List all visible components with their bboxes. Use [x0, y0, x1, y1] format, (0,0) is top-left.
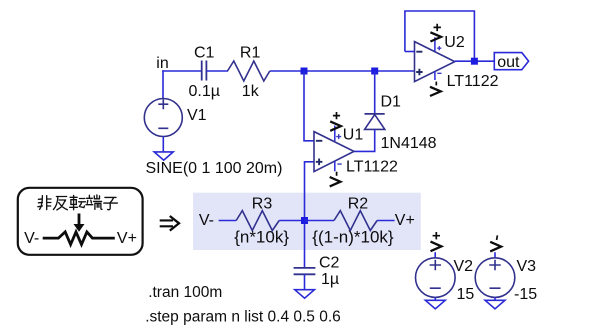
value (1-n)*10k — [312, 227, 394, 246]
svg-text:R2: R2 — [348, 196, 369, 213]
label V1 — [187, 107, 207, 124]
annotation potentiometer — [43, 232, 115, 245]
wire node A down to U1 inverting input — [304, 71, 314, 141]
resistor R2 — [334, 211, 377, 231]
U2 V- power flag — [430, 82, 441, 96]
U2 V+ power flag — [430, 24, 441, 42]
svg-text:1k: 1k — [242, 83, 260, 100]
svg-text:V2: V2 — [454, 258, 474, 275]
.tran directive — [148, 284, 222, 301]
U2 feedback wire — [405, 11, 475, 61]
svg-text:R3: R3 — [252, 196, 273, 213]
value -15 — [514, 286, 537, 303]
wire R3 to pot node — [279, 220, 304, 222]
svg-text:SINE(0 1 100 20m): SINE(0 1 100 20m) — [146, 160, 283, 177]
svg-text:{(1-n)*10k}: {(1-n)*10k} — [312, 227, 394, 246]
diode D1 — [365, 71, 385, 129]
V3 - power flag — [490, 235, 501, 251]
wire V2 to ground — [434, 297, 436, 300]
wire flag to V2 — [434, 252, 436, 258]
svg-text:15: 15 — [457, 286, 475, 303]
wire U1 noninverting input down to pot node and C2 — [305, 162, 315, 268]
wire R2 to V+ — [377, 220, 395, 222]
annotation kanji 非 — [38, 196, 51, 210]
svg-text:.tran 100m: .tran 100m — [148, 284, 222, 301]
label V2 — [454, 258, 474, 275]
wire V- to R3 — [219, 220, 237, 222]
value 1µ — [321, 271, 339, 288]
op-amp U2 — [415, 37, 455, 81]
svg-text:0.1µ: 0.1µ — [189, 83, 220, 100]
wire D1 anode to U1 output — [354, 129, 375, 151]
capacitor C2 — [294, 268, 316, 274]
voltage source V1 — [144, 99, 182, 137]
V2 + power flag — [431, 232, 442, 251]
svg-text:V1: V1 — [187, 107, 207, 124]
label R2 — [348, 196, 369, 213]
label C1 — [194, 45, 215, 62]
node V+ label — [395, 212, 415, 229]
svg-text:U2: U2 — [444, 34, 465, 51]
label V3 — [517, 258, 537, 275]
ground below C2 — [295, 290, 315, 299]
U1 V+ power flag — [330, 112, 341, 131]
wire R1 to U2 +input — [270, 70, 415, 72]
wire in-node down to V1 — [162, 70, 164, 99]
value LT1122 (U2) — [447, 73, 499, 90]
voltage source V3 — [475, 258, 515, 298]
wire C2 to ground — [304, 274, 306, 289]
svg-text:V3: V3 — [517, 258, 537, 275]
label R1 — [240, 45, 261, 62]
wire flag to V3 — [494, 252, 496, 258]
annotation kanji 端 — [86, 195, 102, 210]
U2 input stub — [405, 51, 415, 53]
svg-text:D1: D1 — [381, 93, 402, 110]
wire V1 to ground — [162, 137, 164, 152]
voltage source V2 — [416, 258, 456, 298]
annotation kanji 反 — [53, 197, 67, 210]
ground below V2 — [425, 300, 445, 309]
svg-text:1N4148: 1N4148 — [381, 135, 437, 152]
junction node A — [301, 68, 308, 75]
svg-text:C1: C1 — [194, 45, 215, 62]
annotation wiper arrow — [74, 214, 85, 232]
arrow implies — [160, 216, 179, 231]
highlight region around R3/R2 — [193, 193, 421, 250]
capacitor C1 — [202, 61, 207, 81]
label C2 — [319, 254, 340, 271]
U1 V- power flag — [330, 172, 341, 187]
ground below V1 — [154, 152, 173, 160]
value LT1122 (U1) — [346, 158, 398, 175]
label out — [497, 54, 520, 71]
svg-text:R1: R1 — [240, 45, 261, 62]
node in label — [156, 55, 168, 72]
svg-text:LT1122: LT1122 — [346, 158, 398, 175]
svg-text:U1: U1 — [343, 127, 364, 144]
resistor R3 — [236, 211, 279, 231]
wire pot node to R2 — [305, 220, 335, 222]
wire C1 to R1 — [206, 70, 228, 72]
junction pot node — [301, 217, 308, 224]
value 15 — [457, 286, 475, 303]
svg-text:1µ: 1µ — [321, 271, 339, 288]
svg-text:V-: V- — [24, 230, 39, 247]
value 1k — [242, 83, 260, 100]
annotation kanji 転 — [70, 195, 86, 209]
svg-text:out: out — [497, 54, 520, 71]
wire V3 to ground — [494, 297, 496, 300]
label U2 — [444, 34, 465, 51]
value 0.1µ — [189, 83, 220, 100]
annotation callout box — [18, 188, 143, 255]
junction U2 output — [471, 58, 478, 65]
ground below V3 — [485, 300, 505, 309]
value SINE — [146, 160, 283, 177]
op-amp U1 — [314, 126, 354, 172]
label U1 — [343, 127, 364, 144]
annotation V+ label — [117, 230, 137, 247]
value n*10k — [234, 227, 289, 246]
wire in-node to C1 — [162, 70, 202, 72]
wire U2 output — [455, 60, 495, 62]
resistor R1 — [228, 61, 270, 81]
svg-text:V-: V- — [199, 212, 214, 229]
annotation kanji 子 — [104, 197, 118, 209]
svg-text:{n*10k}: {n*10k} — [234, 227, 289, 246]
label R3 — [252, 196, 273, 213]
svg-text:-15: -15 — [514, 286, 537, 303]
svg-text:LT1122: LT1122 — [447, 73, 499, 90]
label D1 — [381, 93, 402, 110]
svg-text:C2: C2 — [319, 254, 340, 271]
annotation V- label — [24, 230, 39, 247]
svg-text:V+: V+ — [395, 212, 415, 229]
svg-text:V+: V+ — [117, 230, 137, 247]
.step directive — [145, 309, 341, 326]
svg-text:.step param n list 0.4 0.5 0.6: .step param n list 0.4 0.5 0.6 — [145, 309, 341, 326]
svg-text:in: in — [156, 55, 168, 72]
junction diode branch — [371, 68, 378, 75]
value 1N4148 — [381, 135, 437, 152]
out flag — [494, 53, 528, 70]
node V- label — [199, 212, 214, 229]
